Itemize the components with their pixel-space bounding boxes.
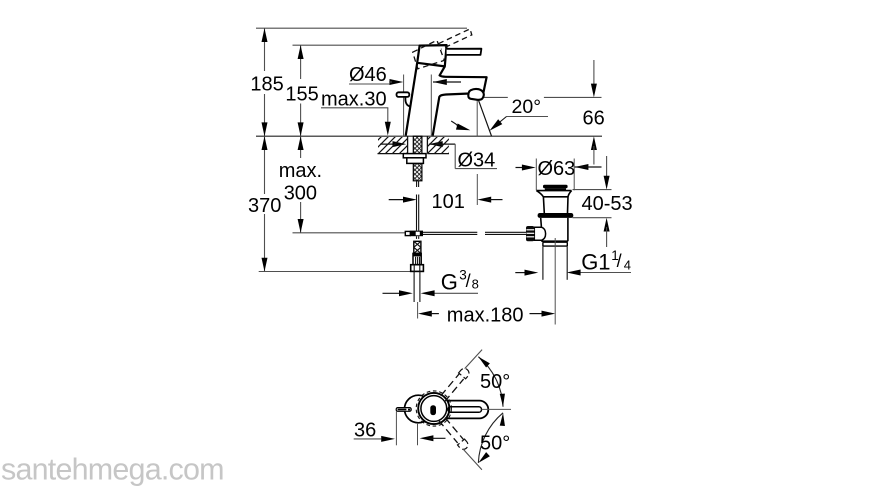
hose nut G3/8: [411, 265, 424, 272]
drain flange: [536, 191, 571, 214]
svg-text:36: 36: [354, 419, 376, 441]
svg-text:/: /: [466, 271, 471, 291]
tailpipe walls: [543, 246, 567, 280]
svg-text:50°: 50°: [480, 432, 510, 454]
faucet cartridge head: [417, 45, 446, 66]
drain O-ring: [538, 213, 574, 218]
svg-text:4: 4: [624, 257, 631, 272]
tailpipe center line: [554, 238, 556, 325]
countertop hatch left: [378, 137, 408, 154]
horizontal linkage rod: [423, 232, 526, 234]
dimension 155: [285, 45, 318, 136]
faucet handle raised position (dashed): [413, 29, 472, 69]
svg-text:Ø46: Ø46: [349, 64, 387, 86]
dimension ref line top (185 level): [256, 27, 467, 29]
dimension Ø63: [516, 158, 602, 191]
svg-text:155: 155: [285, 84, 318, 106]
threaded shank: [413, 136, 422, 181]
dimension 101: [389, 174, 503, 213]
dimension G1 1/4: [515, 248, 631, 276]
top view body circle: [418, 393, 449, 424]
dimension 185: [250, 28, 283, 136]
dimension 370: [248, 136, 281, 271]
svg-text:Ø63: Ø63: [538, 158, 576, 180]
drain plug cap: [543, 185, 568, 191]
svg-text:G: G: [441, 269, 458, 294]
rod coupling joint: [405, 231, 423, 237]
50° extension line upper: [465, 350, 482, 369]
svg-text:santehmega.com: santehmega.com: [1, 453, 224, 487]
50° arc lower: [478, 413, 505, 463]
label 50° upper: [480, 371, 510, 393]
top view handle at -50° (dashed): [439, 418, 468, 450]
label 50° lower: [480, 432, 510, 454]
svg-text:Ø34: Ø34: [458, 150, 496, 172]
shank tail: [417, 181, 419, 187]
dimension 40-53: [573, 156, 633, 247]
dimension max.180: [418, 304, 555, 326]
svg-text:40-53: 40-53: [582, 193, 633, 215]
flexible hose braid: [414, 241, 421, 253]
dimension max.300: [279, 136, 322, 233]
tilt rod housing: [534, 227, 545, 240]
50° arc upper: [478, 357, 505, 407]
50° extension line lower: [463, 449, 482, 470]
top view handle slot: [448, 407, 482, 413]
dimension Ø46: [349, 64, 461, 136]
shank washer: [403, 154, 426, 158]
pop-up rod: [417, 195, 419, 231]
countertop hatch right: [427, 137, 449, 154]
top view pivot circle (dashed): [416, 391, 451, 426]
faucet body: [406, 63, 487, 136]
pop-up drain knob: [397, 92, 411, 106]
svg-text:max.30: max.30: [321, 88, 387, 110]
dimension Ø34: [380, 141, 497, 172]
top view pull-rod stub: [396, 408, 411, 412]
dimension G 3/8: [383, 267, 479, 296]
svg-text:300: 300: [284, 183, 317, 205]
faucet aerator nozzle: [468, 89, 484, 100]
svg-text:20°: 20°: [512, 96, 542, 118]
svg-text:G1: G1: [581, 249, 610, 274]
svg-text:50°: 50°: [480, 371, 510, 393]
svg-text:8: 8: [472, 277, 479, 292]
hose tails: [414, 271, 420, 318]
dimension 20°: [451, 96, 548, 136]
svg-text:370: 370: [248, 195, 281, 217]
370 bottom ref line: [259, 271, 411, 273]
top view spout circle: [405, 395, 433, 423]
top view cartridge mark: [430, 405, 436, 415]
svg-text:max.180: max.180: [447, 304, 524, 326]
top view handle (solid): [446, 401, 488, 419]
drain outlet ring: [543, 242, 567, 246]
shank nut: [407, 158, 424, 164]
svg-text:max.: max.: [279, 160, 322, 182]
watermark santehmega.com: [1, 453, 224, 487]
svg-text:185: 185: [250, 74, 283, 96]
svg-text:/: /: [617, 251, 622, 271]
dimension ref line 155 level: [293, 44, 420, 46]
top view center line: [482, 408, 512, 410]
dimension 36: [354, 412, 446, 446]
faucet lever handle (side): [447, 49, 482, 55]
dimension 66: [477, 60, 604, 165]
max.300 bottom ref line: [293, 232, 406, 234]
top view handle at +50° (dashed): [441, 369, 469, 402]
rod stub below joint: [417, 236, 419, 239]
drain body: [541, 218, 568, 241]
knurled knob: [526, 226, 534, 241]
countertop line: [256, 135, 602, 137]
svg-text:66: 66: [583, 108, 605, 130]
svg-text:101: 101: [432, 191, 465, 213]
mounting hole walls: [408, 136, 428, 153]
dimension max.30: [321, 88, 391, 135]
hose collar: [413, 253, 421, 264]
